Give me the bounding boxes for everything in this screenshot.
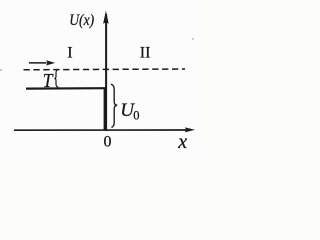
svg-text:II: II: [140, 45, 151, 62]
brace } for step height U0: [111, 84, 117, 127]
y-axis arrowhead: [103, 11, 109, 24]
svg-text:0: 0: [133, 108, 139, 122]
svg-text:U(x): U(x): [69, 12, 94, 29]
svg-text:I: I: [67, 45, 72, 62]
potential step at x=0: [104, 88, 107, 130]
svg-text:0: 0: [104, 134, 112, 151]
potential level in region I (solid line): [26, 87, 106, 90]
energy level dashed line E: [24, 68, 186, 71]
svg-text:x: x: [177, 131, 187, 153]
x-axis: [14, 129, 188, 131]
y-axis: [105, 14, 107, 131]
incident particle arrow: [29, 62, 47, 64]
x-axis arrowhead: [185, 127, 195, 132]
brace { between energy level and potential level: [54, 69, 58, 87]
faint scan speck near top right: [192, 38, 194, 40]
faint left speck of dashed line: [0, 69, 2, 70]
